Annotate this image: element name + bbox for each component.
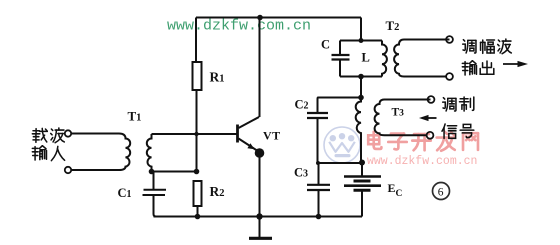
svg-text:L: L: [362, 51, 370, 65]
svg-text:VT: VT: [263, 129, 281, 143]
svg-text:6: 6: [438, 187, 444, 199]
svg-text:R1: R1: [210, 70, 225, 85]
svg-text:C3: C3: [294, 166, 308, 180]
svg-text:C1: C1: [118, 186, 132, 200]
svg-text:C2: C2: [295, 98, 309, 112]
svg-text:C: C: [321, 38, 330, 52]
svg-text:www.dzkfw.com.cn: www.dzkfw.com.cn: [367, 155, 477, 168]
svg-text:EC: EC: [388, 181, 403, 199]
svg-text:R2: R2: [210, 184, 225, 199]
svg-text:T1: T1: [128, 109, 142, 124]
svg-text:T3: T3: [392, 107, 405, 119]
svg-text:T2: T2: [386, 18, 400, 33]
svg-text:www.dzkfw.com.cn: www.dzkfw.com.cn: [167, 18, 311, 35]
